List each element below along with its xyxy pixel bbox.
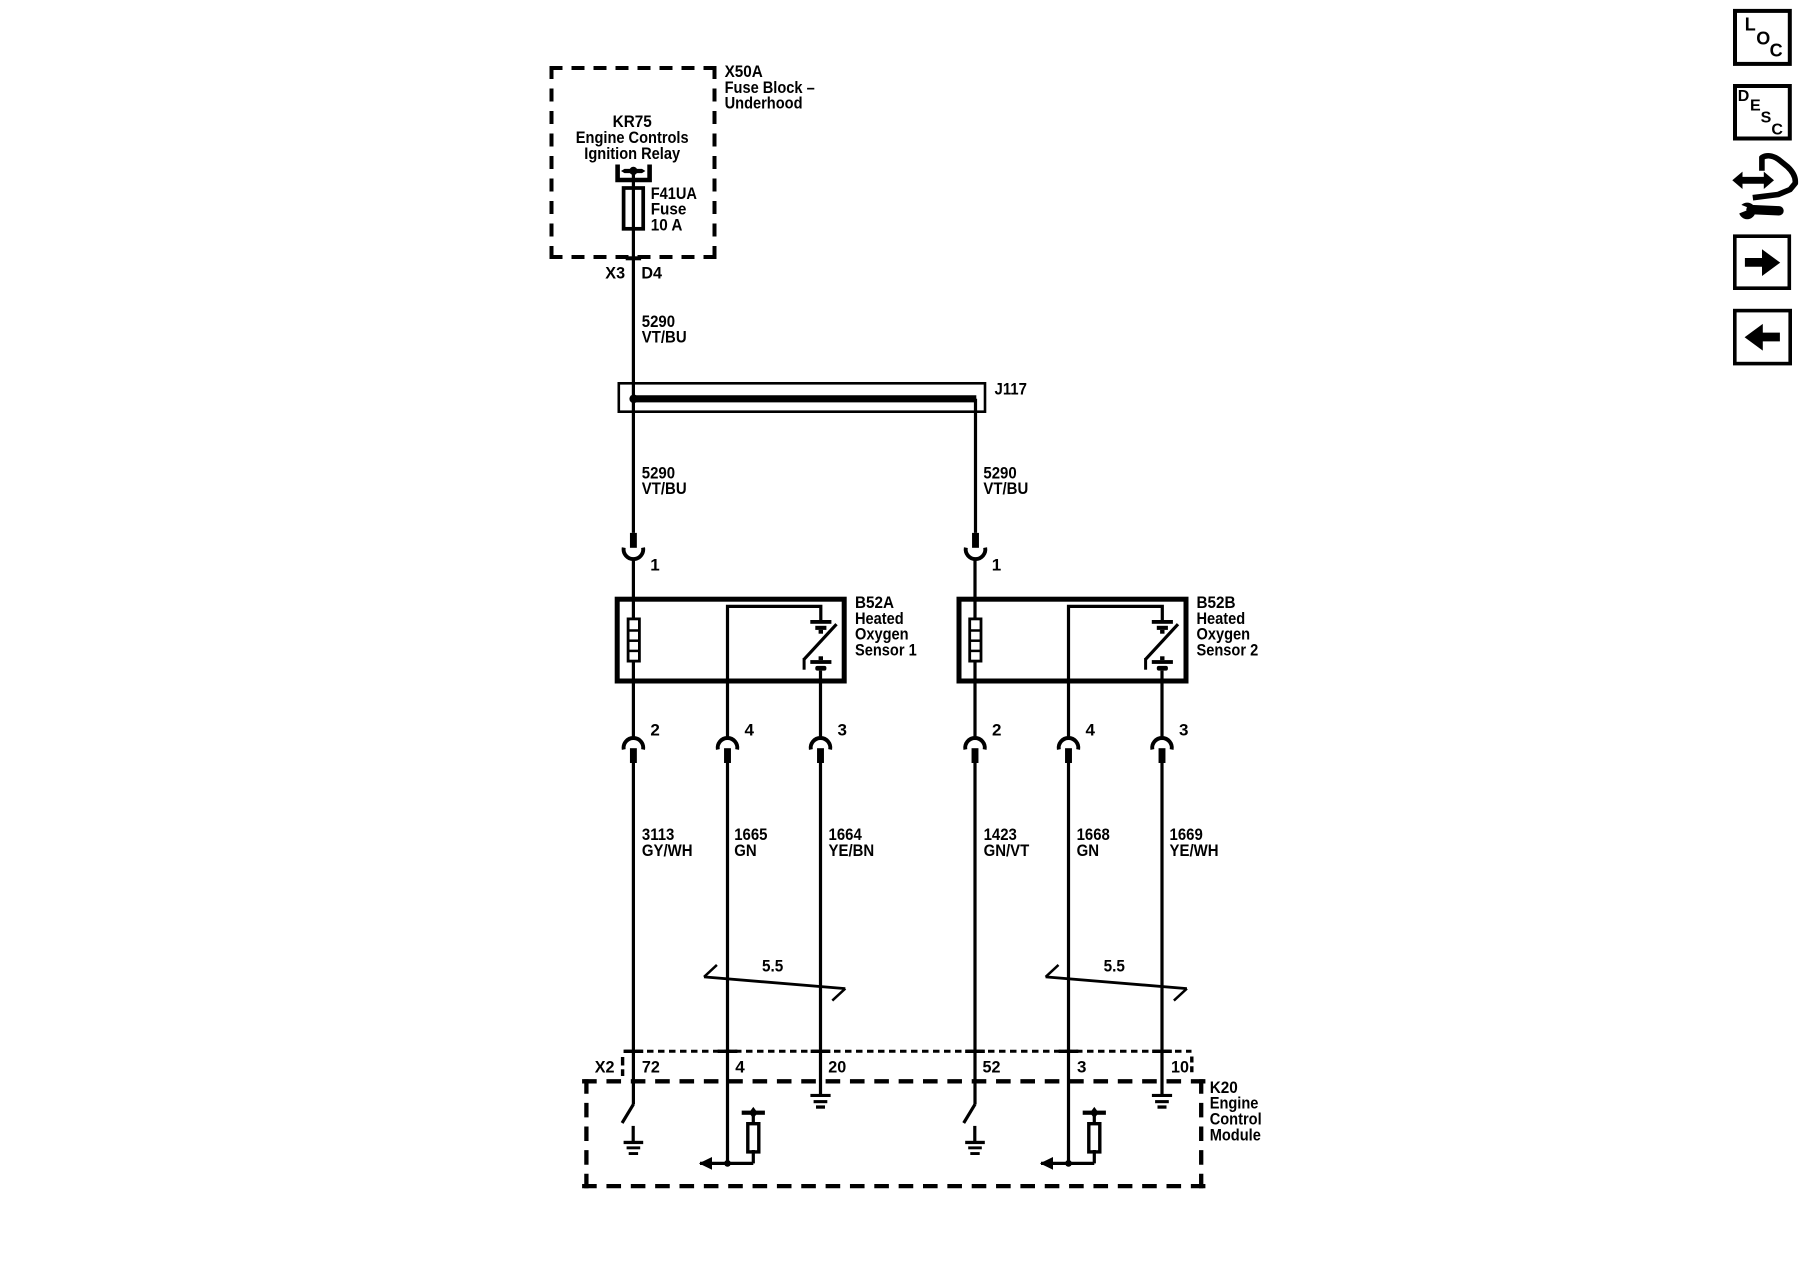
svg-text:E: E <box>1750 98 1761 115</box>
svg-text:YE/WH: YE/WH <box>1170 842 1219 860</box>
wire 1665 GN <box>726 763 729 1163</box>
label wire 1664 YE/BN <box>829 826 875 860</box>
label pin 72 K20 <box>642 1057 660 1076</box>
wire connector to B52B heater and pin 2 <box>973 560 976 738</box>
label wire 1668 GN <box>1077 826 1110 860</box>
heater element B52B <box>970 619 982 661</box>
oxygen sensing cell B52A <box>804 620 836 671</box>
wire left branch to connector <box>632 399 635 533</box>
wire relay to J117 through fuse <box>632 171 635 399</box>
wire 1423 GN/VT <box>973 763 976 1105</box>
wire cell B52A to pin 3 <box>819 671 822 738</box>
svg-text:D: D <box>1738 88 1750 105</box>
wire 1669 YE/WH <box>1160 763 1163 1094</box>
label connector X3 D4 <box>605 263 663 282</box>
label pin 4 K20 <box>735 1058 745 1077</box>
wire 1668 GN <box>1067 763 1070 1163</box>
connector pin 2 B52B <box>965 738 985 763</box>
sensor B52A box <box>617 599 844 681</box>
svg-text:D4: D4 <box>641 263 662 282</box>
svg-text:GN: GN <box>1077 842 1099 860</box>
svg-text:1: 1 <box>650 556 659 575</box>
connector pin 3 B52B <box>1152 738 1172 763</box>
svg-text:2: 2 <box>992 721 1001 740</box>
svg-text:3: 3 <box>1179 721 1188 740</box>
label pin 20 K20 <box>828 1057 846 1076</box>
twisted pair marker 5.5 left <box>704 965 845 1001</box>
svg-text:1: 1 <box>992 556 1001 575</box>
label pin 4 B52B <box>1086 721 1096 740</box>
switch to ground pin 52 <box>964 1104 975 1141</box>
oxygen sensing cell B52B <box>1146 620 1178 671</box>
label pin 52 K20 <box>983 1057 1001 1076</box>
label 5.5 right <box>1104 957 1125 976</box>
twisted pair marker 5.5 right <box>1046 965 1187 1001</box>
svg-text:GN/VT: GN/VT <box>984 842 1030 860</box>
resistor and voltage reference pin 4 <box>699 1107 765 1170</box>
label K20 Engine Control Module <box>1210 1078 1262 1144</box>
fuse F41UA <box>624 188 644 229</box>
wire 3113 GY/WH <box>632 763 635 1105</box>
svg-text:GN: GN <box>734 842 756 860</box>
label B52A Heated Oxygen Sensor 1 <box>855 593 917 659</box>
ground pin 72 <box>624 1141 644 1155</box>
wire B52B pin4 to connector <box>1067 681 1070 738</box>
ECM K20 dashed box <box>582 1079 1205 1188</box>
switch to ground pin 72 <box>622 1104 633 1141</box>
wire right branch from J117 <box>974 399 977 533</box>
fuse block X50A dashed box <box>550 66 717 259</box>
label pin 2 B52B <box>992 721 1001 740</box>
ground pin 52 <box>965 1141 985 1155</box>
label pin 3 B52B <box>1179 721 1188 740</box>
svg-text:J117: J117 <box>995 381 1028 399</box>
icon double arrow with wrench <box>1732 156 1795 219</box>
svg-text:GY/WH: GY/WH <box>642 842 693 860</box>
svg-text:S: S <box>1761 110 1772 127</box>
label wire 1665 GN <box>734 826 767 860</box>
svg-text:X2: X2 <box>595 1057 615 1076</box>
label wire 5290 VT/BU left <box>642 464 687 498</box>
connector pin 2 B52A <box>624 738 644 763</box>
label 5.5 left <box>762 957 783 976</box>
label pin 3 K20 <box>1077 1058 1086 1077</box>
label pin 10 K20 <box>1171 1057 1189 1076</box>
svg-text:4: 4 <box>735 1058 745 1077</box>
sensor B52B box <box>959 599 1186 681</box>
svg-text:O: O <box>1756 29 1770 49</box>
label wire 5290 VT/BU right <box>983 464 1028 498</box>
heater element B52A <box>628 619 640 661</box>
svg-text:X3: X3 <box>605 263 625 282</box>
ground pin 20 <box>810 1094 830 1109</box>
svg-text:C: C <box>1770 40 1783 60</box>
svg-text:Sensor 2: Sensor 2 <box>1197 641 1259 659</box>
label pin 4 B52A <box>745 721 755 740</box>
connector pin 4 B52B <box>1059 738 1079 763</box>
label J117 <box>995 381 1028 399</box>
svg-text:Ignition Relay: Ignition Relay <box>584 145 680 163</box>
svg-text:10: 10 <box>1171 1057 1189 1076</box>
icon box arrow left <box>1735 311 1790 364</box>
svg-text:4: 4 <box>1086 721 1096 740</box>
inline connector pin 1 right <box>966 533 986 559</box>
relay KR75 contact symbol <box>618 165 650 181</box>
label X50A Fuse Block Underhood <box>725 62 815 113</box>
label wire 5290 VT/BU top <box>642 313 687 347</box>
label X2 <box>595 1057 615 1076</box>
svg-text:C: C <box>1771 122 1783 139</box>
label wire 1669 YE/WH <box>1170 826 1219 860</box>
internal wire B52A pin4 to cell <box>728 606 821 683</box>
svg-text:VT/BU: VT/BU <box>983 480 1028 498</box>
svg-text:L: L <box>1745 15 1756 35</box>
svg-text:YE/BN: YE/BN <box>829 842 875 860</box>
icon box DESC <box>1735 86 1790 139</box>
internal wire B52B pin4 to cell <box>1069 606 1163 683</box>
wire 1664 YE/BN <box>819 763 822 1094</box>
wire connector to B52A heater and pin 2 <box>632 560 635 738</box>
svg-text:Underhood: Underhood <box>725 95 803 113</box>
svg-text:3: 3 <box>1077 1058 1086 1077</box>
svg-text:VT/BU: VT/BU <box>642 480 687 498</box>
label pin 3 B52A <box>838 721 847 740</box>
svg-text:3: 3 <box>838 721 847 740</box>
connector pin 4 B52A <box>718 738 738 763</box>
svg-text:VT/BU: VT/BU <box>642 329 687 347</box>
label wire 3113 GY/WH <box>642 826 693 860</box>
svg-text:72: 72 <box>642 1057 660 1076</box>
ground pin 10 <box>1152 1094 1172 1109</box>
resistor and voltage reference pin 3 <box>1040 1107 1106 1170</box>
tick at X50A border crossing <box>626 256 641 260</box>
svg-text:Sensor 1: Sensor 1 <box>855 641 917 659</box>
label wire 1423 GN/VT <box>984 826 1030 860</box>
svg-text:4: 4 <box>745 721 755 740</box>
wire B52A pin4 to connector <box>726 681 729 738</box>
label relay KR75 <box>576 112 689 163</box>
connector X2 dashed boundary <box>623 1051 1192 1076</box>
svg-text:5.5: 5.5 <box>762 957 783 976</box>
label pin 2 B52A <box>650 721 659 740</box>
label F41UA Fuse 10 A <box>651 185 698 234</box>
label B52B Heated Oxygen Sensor 2 <box>1197 593 1259 659</box>
label pin 1 left <box>650 556 659 575</box>
svg-text:10 A: 10 A <box>651 216 683 235</box>
svg-text:52: 52 <box>983 1057 1001 1076</box>
connector pin 3 B52A <box>811 738 831 763</box>
svg-text:5.5: 5.5 <box>1104 957 1125 976</box>
label pin 1 right <box>992 556 1001 575</box>
wire cell B52B to pin 3 <box>1160 671 1163 738</box>
splice J117 <box>619 383 985 411</box>
pin ticks on X2 boundary <box>624 1050 1172 1053</box>
inline connector pin 1 left <box>624 533 644 559</box>
svg-text:2: 2 <box>650 721 659 740</box>
svg-text:Module: Module <box>1210 1126 1261 1144</box>
svg-text:20: 20 <box>828 1057 846 1076</box>
icon box arrow right <box>1735 236 1790 288</box>
icon box LOC <box>1735 11 1790 64</box>
